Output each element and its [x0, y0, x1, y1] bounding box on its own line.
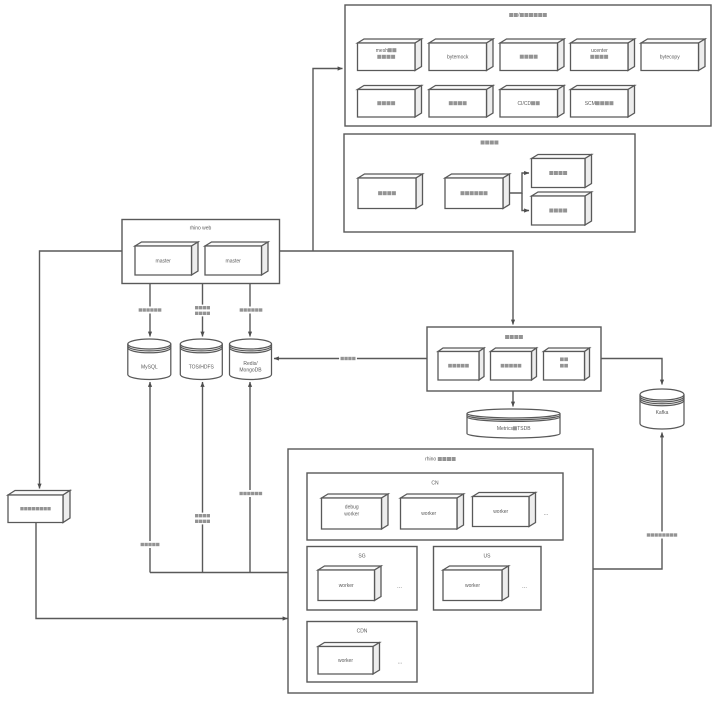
wire: engine bus up to Redis/MongoDB (arrow up): [249, 382, 251, 573]
wire: engine bus up to TOS/HDFS (arrow up): [202, 382, 204, 573]
label: title CDN: [357, 629, 368, 635]
svg-text:Kafka: Kafka: [656, 410, 669, 416]
label: 压测脚本/数据文件: [194, 305, 212, 317]
box: monitoring container 监控服务: [427, 327, 601, 391]
component: Kafka cylinder: [640, 389, 684, 429]
svg-text:bytecopy: bytecopy: [660, 55, 681, 61]
label: CDN ellipsis: [397, 660, 402, 666]
label: SG ellipsis: [397, 584, 402, 590]
component: SCM版本编译 cube: [571, 86, 635, 118]
wire: branch up to top services box (arrow right): [313, 69, 343, 252]
svg-text:master: master: [156, 258, 172, 264]
box: other-modules container 其他模块: [344, 134, 635, 232]
label: 压测任务数据: [137, 307, 163, 314]
box: CN region: [307, 473, 563, 540]
svg-text:SG: SG: [358, 554, 365, 560]
wire: scheduler bottom to engine left (arrow right): [36, 523, 288, 619]
wire: engine bus up to MySQL (arrow up): [149, 382, 151, 573]
component: 压测引擎调度服务 cube: [8, 491, 70, 523]
svg-text:...: ...: [397, 584, 402, 590]
component: ucenter压测账号 cube: [571, 39, 635, 71]
label: title 监控服务: [505, 335, 523, 339]
label: title SG: [358, 554, 365, 560]
label: US ellipsis: [522, 584, 527, 590]
box: SG region: [307, 547, 417, 611]
component: Metrics TSDB cylinder: [467, 409, 560, 438]
label: 监控数据: [339, 355, 357, 362]
wire: rhino web to MySQL (arrow down): [149, 284, 151, 337]
component: Redis/MongoDB database cylinder: [230, 339, 272, 380]
wire: rhino web to TOS/HDFS (arrow down): [202, 284, 204, 337]
component: master cube 2: [205, 242, 268, 275]
svg-text:MongoDB: MongoDB: [239, 368, 262, 374]
svg-text:master: master: [226, 258, 242, 264]
component: 性能分析 cube: [429, 86, 493, 118]
component: bytecopy cube: [641, 39, 705, 71]
box: rhino web container: [122, 220, 280, 284]
component: CDN worker cube: [318, 643, 380, 675]
svg-text:CN: CN: [431, 481, 439, 487]
svg-text:...: ...: [397, 660, 402, 666]
label: CN ellipsis: [543, 511, 548, 517]
svg-text:US: US: [484, 554, 492, 560]
wire: replay to traffic rewrite (arrow right): [522, 193, 529, 211]
wire: rhino web right to monitoring top (arrow down): [280, 251, 514, 325]
wire: monitoring right to Kafka top (arrow down): [601, 359, 662, 385]
svg-text:...: ...: [522, 584, 527, 590]
component: TOS/HDFS database cylinder: [180, 339, 222, 380]
wire: monitoring bottom to Metrics TSDB (arrow down): [512, 391, 514, 407]
svg-text:MySQL: MySQL: [141, 364, 158, 370]
component: SG worker cube: [318, 566, 381, 601]
component: 客户端监控 cube: [438, 348, 484, 380]
label: 压测状态数据 lower: [238, 490, 264, 497]
component: 链路分析 cube: [358, 86, 422, 118]
svg-text:worker: worker: [339, 583, 354, 589]
svg-text:mesh: mesh: [376, 48, 388, 54]
wire: engine right to Kafka bottom (arrow up): [593, 433, 662, 570]
wire: replay to traffic warehouse (arrow right): [509, 173, 529, 193]
svg-text:worker: worker: [465, 583, 480, 589]
label: title CN: [431, 481, 439, 487]
label: title 自研/其他协助服务: [509, 13, 547, 19]
label: 发压机心跳: [139, 541, 161, 548]
wire: rhino web to Redis/MongoDB (arrow down): [249, 284, 251, 337]
label: 数据文件/日志文件: [194, 513, 212, 525]
wire: engine bus horizontal connector: [150, 572, 288, 574]
box: CDN region: [307, 622, 417, 683]
component: 流量仓库 cube: [532, 155, 592, 188]
component: CN worker cube 2: [473, 493, 536, 527]
svg-text:ucenter: ucenter: [591, 48, 608, 54]
svg-text:worker: worker: [344, 511, 359, 517]
component: master cube 1: [135, 242, 198, 275]
label: title 其他模块: [481, 141, 499, 145]
box: top services container 自研/其他协助服务: [345, 5, 711, 126]
svg-text:...: ...: [543, 511, 548, 517]
svg-text:SCM: SCM: [585, 101, 596, 107]
label: 发压机客户端打点: [645, 532, 678, 539]
component: 流量复制回放 cube: [445, 174, 510, 209]
component: US worker cube: [443, 566, 509, 601]
svg-text:TOS/HDFS: TOS/HDFS: [189, 364, 215, 370]
box: rhino engine container rhino压测引擎: [288, 449, 593, 693]
box: US region: [434, 547, 542, 611]
component: 接口调试 cube: [500, 39, 564, 71]
svg-text:TSDB: TSDB: [517, 426, 531, 432]
component: 流量改写 cube: [532, 192, 592, 225]
wire: monitoring to Redis/MongoDB 监控数据 (arrow left): [274, 358, 427, 360]
label: title US: [484, 554, 492, 560]
component: 告警监控 cube: [544, 348, 590, 380]
svg-text:CDN: CDN: [357, 629, 368, 635]
component: CI/CD打通 cube: [500, 86, 564, 118]
svg-text:Redis/: Redis/: [243, 361, 258, 367]
label: title rhino 压测引擎: [425, 457, 456, 463]
svg-text:worker: worker: [493, 509, 508, 515]
component: CN worker cube 1: [401, 494, 464, 529]
svg-text:worker: worker: [338, 658, 353, 664]
component: MySQL database cylinder: [128, 339, 171, 380]
svg-text:worker: worker: [421, 511, 436, 517]
component: 流量调度 cube: [358, 174, 423, 209]
svg-text:rhino: rhino: [425, 457, 436, 463]
label: 压测状态数据 upper: [238, 307, 264, 314]
wire: rhino web left to scheduler (arrow down): [40, 251, 123, 489]
component: mesh染色压测开关 cube: [358, 39, 422, 71]
component: CN debug worker cube: [322, 494, 389, 529]
component: 服务端监控 cube: [491, 348, 537, 380]
svg-text:CI/CD: CI/CD: [517, 101, 531, 107]
label: title rhino web: [190, 226, 212, 232]
svg-text:debug: debug: [345, 505, 359, 511]
component: bytemock cube: [429, 39, 493, 71]
svg-text:Metrics: Metrics: [497, 426, 514, 432]
svg-text:bytemock: bytemock: [447, 55, 469, 61]
svg-text:rhino web: rhino web: [190, 226, 212, 232]
